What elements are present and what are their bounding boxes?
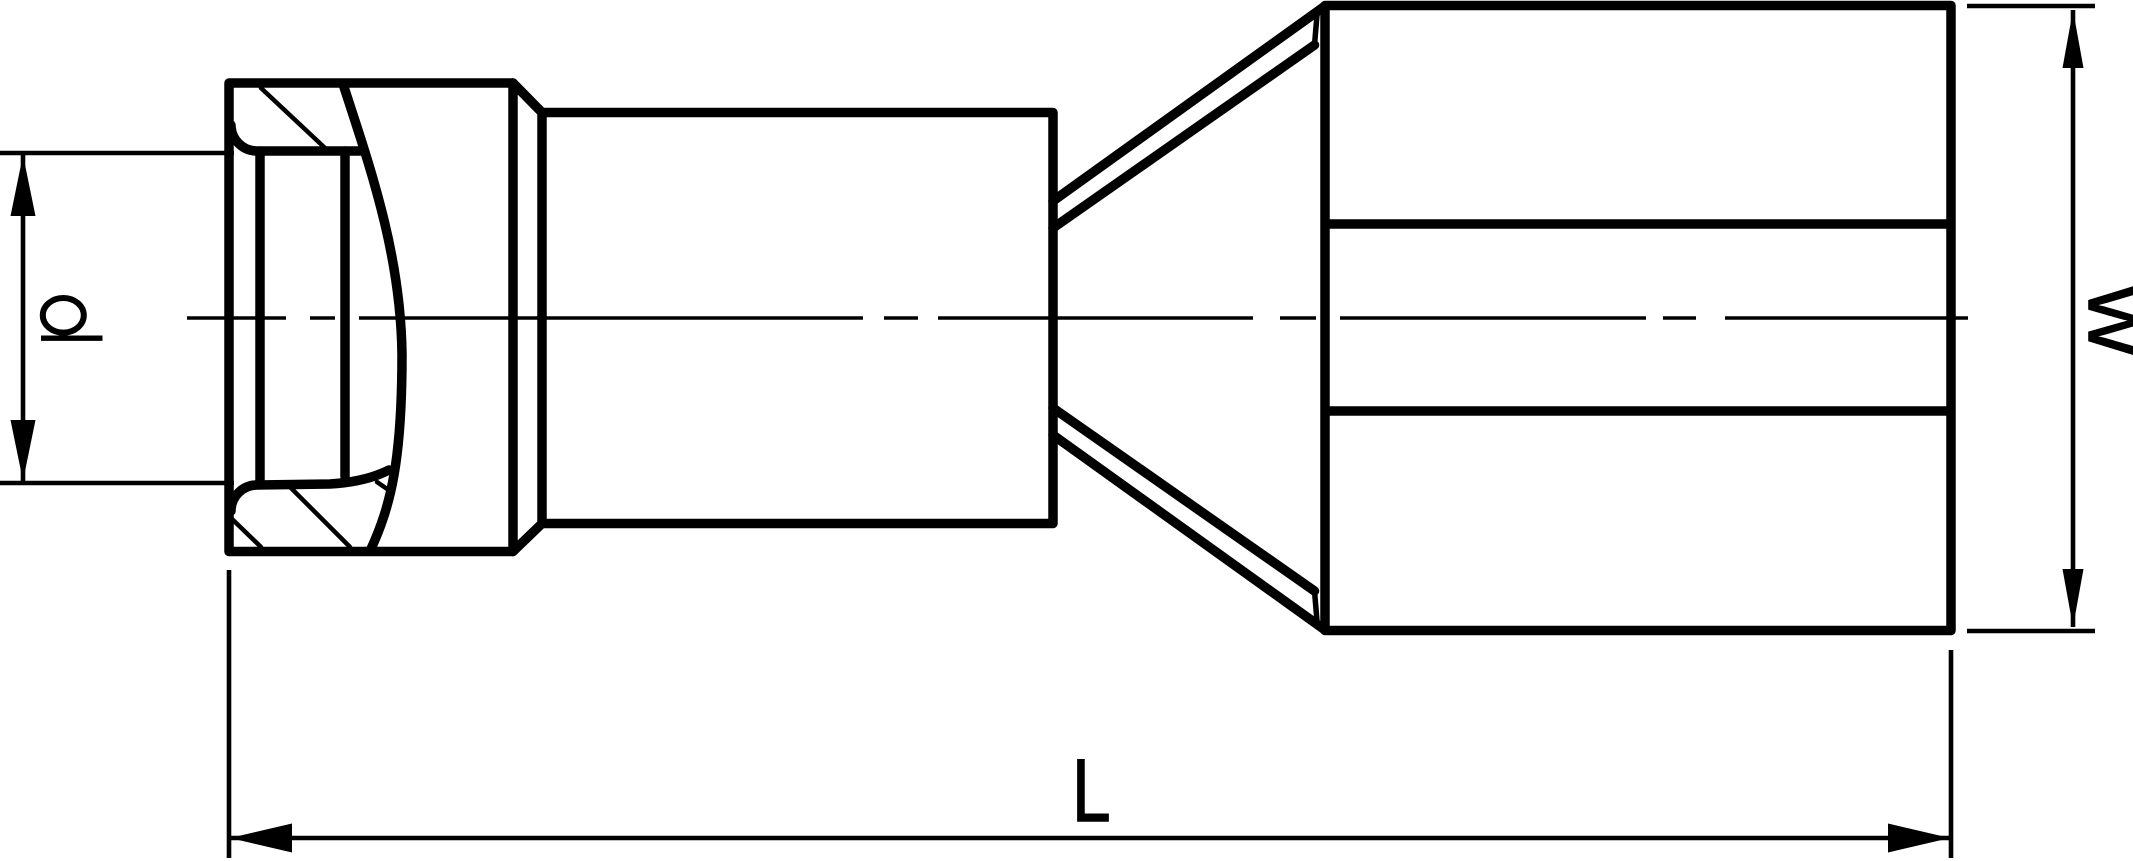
extension line W bottom (1967, 629, 2095, 634)
svg-text:L: L (1072, 741, 1111, 840)
blade rolled edge bottom (1330, 406, 1946, 416)
sleeve chamfer top (513, 83, 542, 113)
funnel outer top line (1053, 6, 1325, 201)
dimension line d (21, 155, 26, 481)
funnel inner top line (1053, 45, 1315, 228)
funnel outer bottom line (1053, 435, 1325, 630)
svg-text:W: W (2073, 285, 2133, 357)
blade body (1325, 6, 1951, 631)
arrow d top (11, 155, 36, 216)
extension line L right (1949, 650, 1954, 858)
sleeve bore seat line with fillet (231, 470, 389, 511)
funnel seam top (1315, 15, 1318, 45)
hatch sleeve bottom long (290, 487, 350, 547)
arrow d bottom (11, 420, 36, 481)
arrow L right (1888, 824, 1950, 853)
hatch sleeve bottom small (377, 482, 390, 491)
extension line W top (1967, 4, 2095, 9)
centerline (187, 316, 1968, 319)
dimension line W (2071, 10, 2076, 627)
arrow L left (230, 824, 292, 853)
sleeve bore near wall (255, 151, 265, 483)
sleeve bore mouth arc (344, 87, 402, 549)
extension line d top (0, 151, 234, 156)
sleeve chamfer bottom (513, 524, 542, 552)
sleeve outer body (229, 83, 513, 552)
funnel seam bottom (1315, 591, 1318, 621)
hatch sleeve bottom corner (232, 519, 261, 547)
hatch sleeve top (261, 88, 325, 148)
sleeve bore far wall (340, 151, 350, 477)
dimension line L (229, 836, 1951, 841)
blade rolled edge top (1330, 219, 1946, 229)
sleeve bore top line with fillet (231, 125, 360, 151)
crimp barrel (542, 113, 1053, 524)
funnel inner bottom line (1053, 408, 1315, 591)
label d (rotated) (41, 298, 103, 338)
extension line d bottom (0, 481, 234, 486)
extension line L left (227, 570, 232, 858)
arrow W bottom (2063, 569, 2084, 627)
arrow W top (2063, 10, 2084, 68)
